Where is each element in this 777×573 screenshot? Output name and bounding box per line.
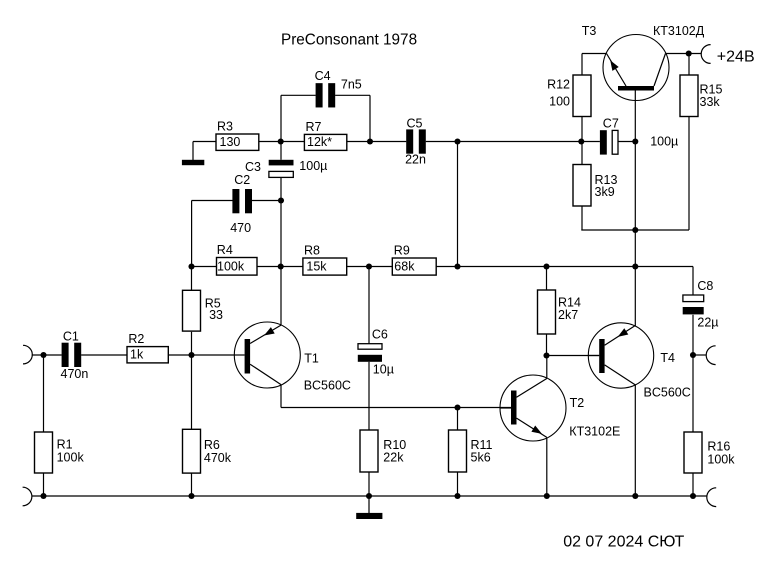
svg-text:02 07 2024 СЮТ: 02 07 2024 СЮТ	[563, 534, 684, 551]
svg-text:C5: C5	[407, 116, 423, 130]
svg-text:2k7: 2k7	[558, 308, 578, 322]
svg-text:T1: T1	[304, 352, 319, 366]
svg-text:T4: T4	[660, 351, 675, 365]
svg-text:R7: R7	[306, 120, 322, 134]
svg-text:33: 33	[209, 308, 223, 322]
svg-text:100k: 100k	[217, 260, 245, 274]
svg-text:68k: 68k	[394, 260, 415, 274]
svg-text:C2: C2	[234, 173, 250, 187]
svg-text:R1: R1	[57, 438, 73, 452]
svg-text:R3: R3	[217, 120, 233, 134]
svg-text:15k: 15k	[306, 260, 327, 274]
svg-text:C7: C7	[603, 117, 619, 131]
svg-text:33k: 33k	[700, 95, 721, 109]
svg-text:130: 130	[220, 135, 241, 149]
svg-text:BC560C: BC560C	[304, 379, 351, 393]
svg-text:R9: R9	[394, 244, 410, 258]
svg-text:10µ: 10µ	[373, 362, 394, 376]
svg-text:T3: T3	[582, 24, 597, 38]
svg-text:R16: R16	[707, 440, 730, 454]
svg-text:12k*: 12k*	[307, 135, 332, 149]
svg-text:R2: R2	[128, 332, 144, 346]
svg-text:C3: C3	[245, 160, 261, 174]
svg-text:3k9: 3k9	[595, 185, 615, 199]
svg-text:5k6: 5k6	[471, 451, 491, 465]
svg-text:C8: C8	[697, 279, 713, 293]
svg-text:T2: T2	[570, 396, 585, 410]
svg-text:470k: 470k	[204, 451, 232, 465]
svg-text:PreConsonant 1978: PreConsonant 1978	[281, 32, 417, 49]
svg-text:100µ: 100µ	[650, 134, 678, 148]
svg-text:R6: R6	[204, 438, 220, 452]
svg-text:+24В: +24В	[717, 49, 755, 66]
svg-text:R8: R8	[304, 244, 320, 258]
svg-text:100k: 100k	[57, 451, 85, 465]
svg-text:BC560C: BC560C	[644, 386, 691, 400]
svg-text:100k: 100k	[707, 453, 735, 467]
svg-text:1k: 1k	[130, 347, 144, 361]
svg-text:C6: C6	[372, 328, 388, 342]
svg-text:100µ: 100µ	[299, 159, 327, 173]
svg-text:470: 470	[230, 221, 251, 235]
svg-text:R4: R4	[217, 243, 233, 257]
svg-text:C4: C4	[315, 69, 331, 83]
svg-text:КТ3102Д: КТ3102Д	[653, 24, 705, 38]
svg-text:R12: R12	[547, 78, 570, 92]
svg-text:100: 100	[549, 95, 570, 109]
svg-text:C1: C1	[63, 330, 79, 344]
svg-text:470n: 470n	[61, 367, 89, 381]
svg-text:22k: 22k	[383, 451, 404, 465]
svg-text:22n: 22n	[405, 153, 426, 167]
svg-text:7n5: 7n5	[341, 78, 362, 92]
svg-text:КТ3102Е: КТ3102Е	[569, 424, 620, 438]
svg-text:22µ: 22µ	[697, 316, 718, 330]
